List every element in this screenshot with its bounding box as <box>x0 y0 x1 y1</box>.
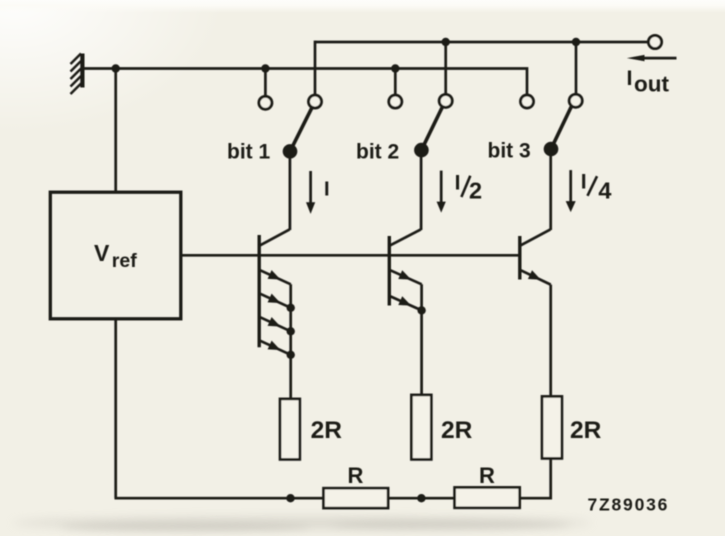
svg-text:I: I <box>324 179 330 201</box>
svg-text:R: R <box>348 463 364 488</box>
svg-text:2R: 2R <box>311 417 343 444</box>
svg-text:4: 4 <box>598 178 611 204</box>
svg-text:2R: 2R <box>570 417 602 444</box>
svg-text:2: 2 <box>469 178 482 204</box>
svg-text:7Z89036: 7Z89036 <box>588 495 670 515</box>
svg-text:I: I <box>581 171 587 194</box>
svg-text:bit 2: bit 2 <box>356 141 399 164</box>
svg-text:out: out <box>634 72 669 97</box>
svg-text:bit 1: bit 1 <box>227 141 270 164</box>
svg-text:bit 3: bit 3 <box>488 140 531 163</box>
svg-text:R: R <box>479 463 495 488</box>
svg-text:I: I <box>455 172 461 195</box>
svg-text:V: V <box>94 240 110 266</box>
svg-text:ref: ref <box>112 250 137 272</box>
svg-text:2R: 2R <box>441 417 473 444</box>
svg-text:I: I <box>627 66 633 90</box>
